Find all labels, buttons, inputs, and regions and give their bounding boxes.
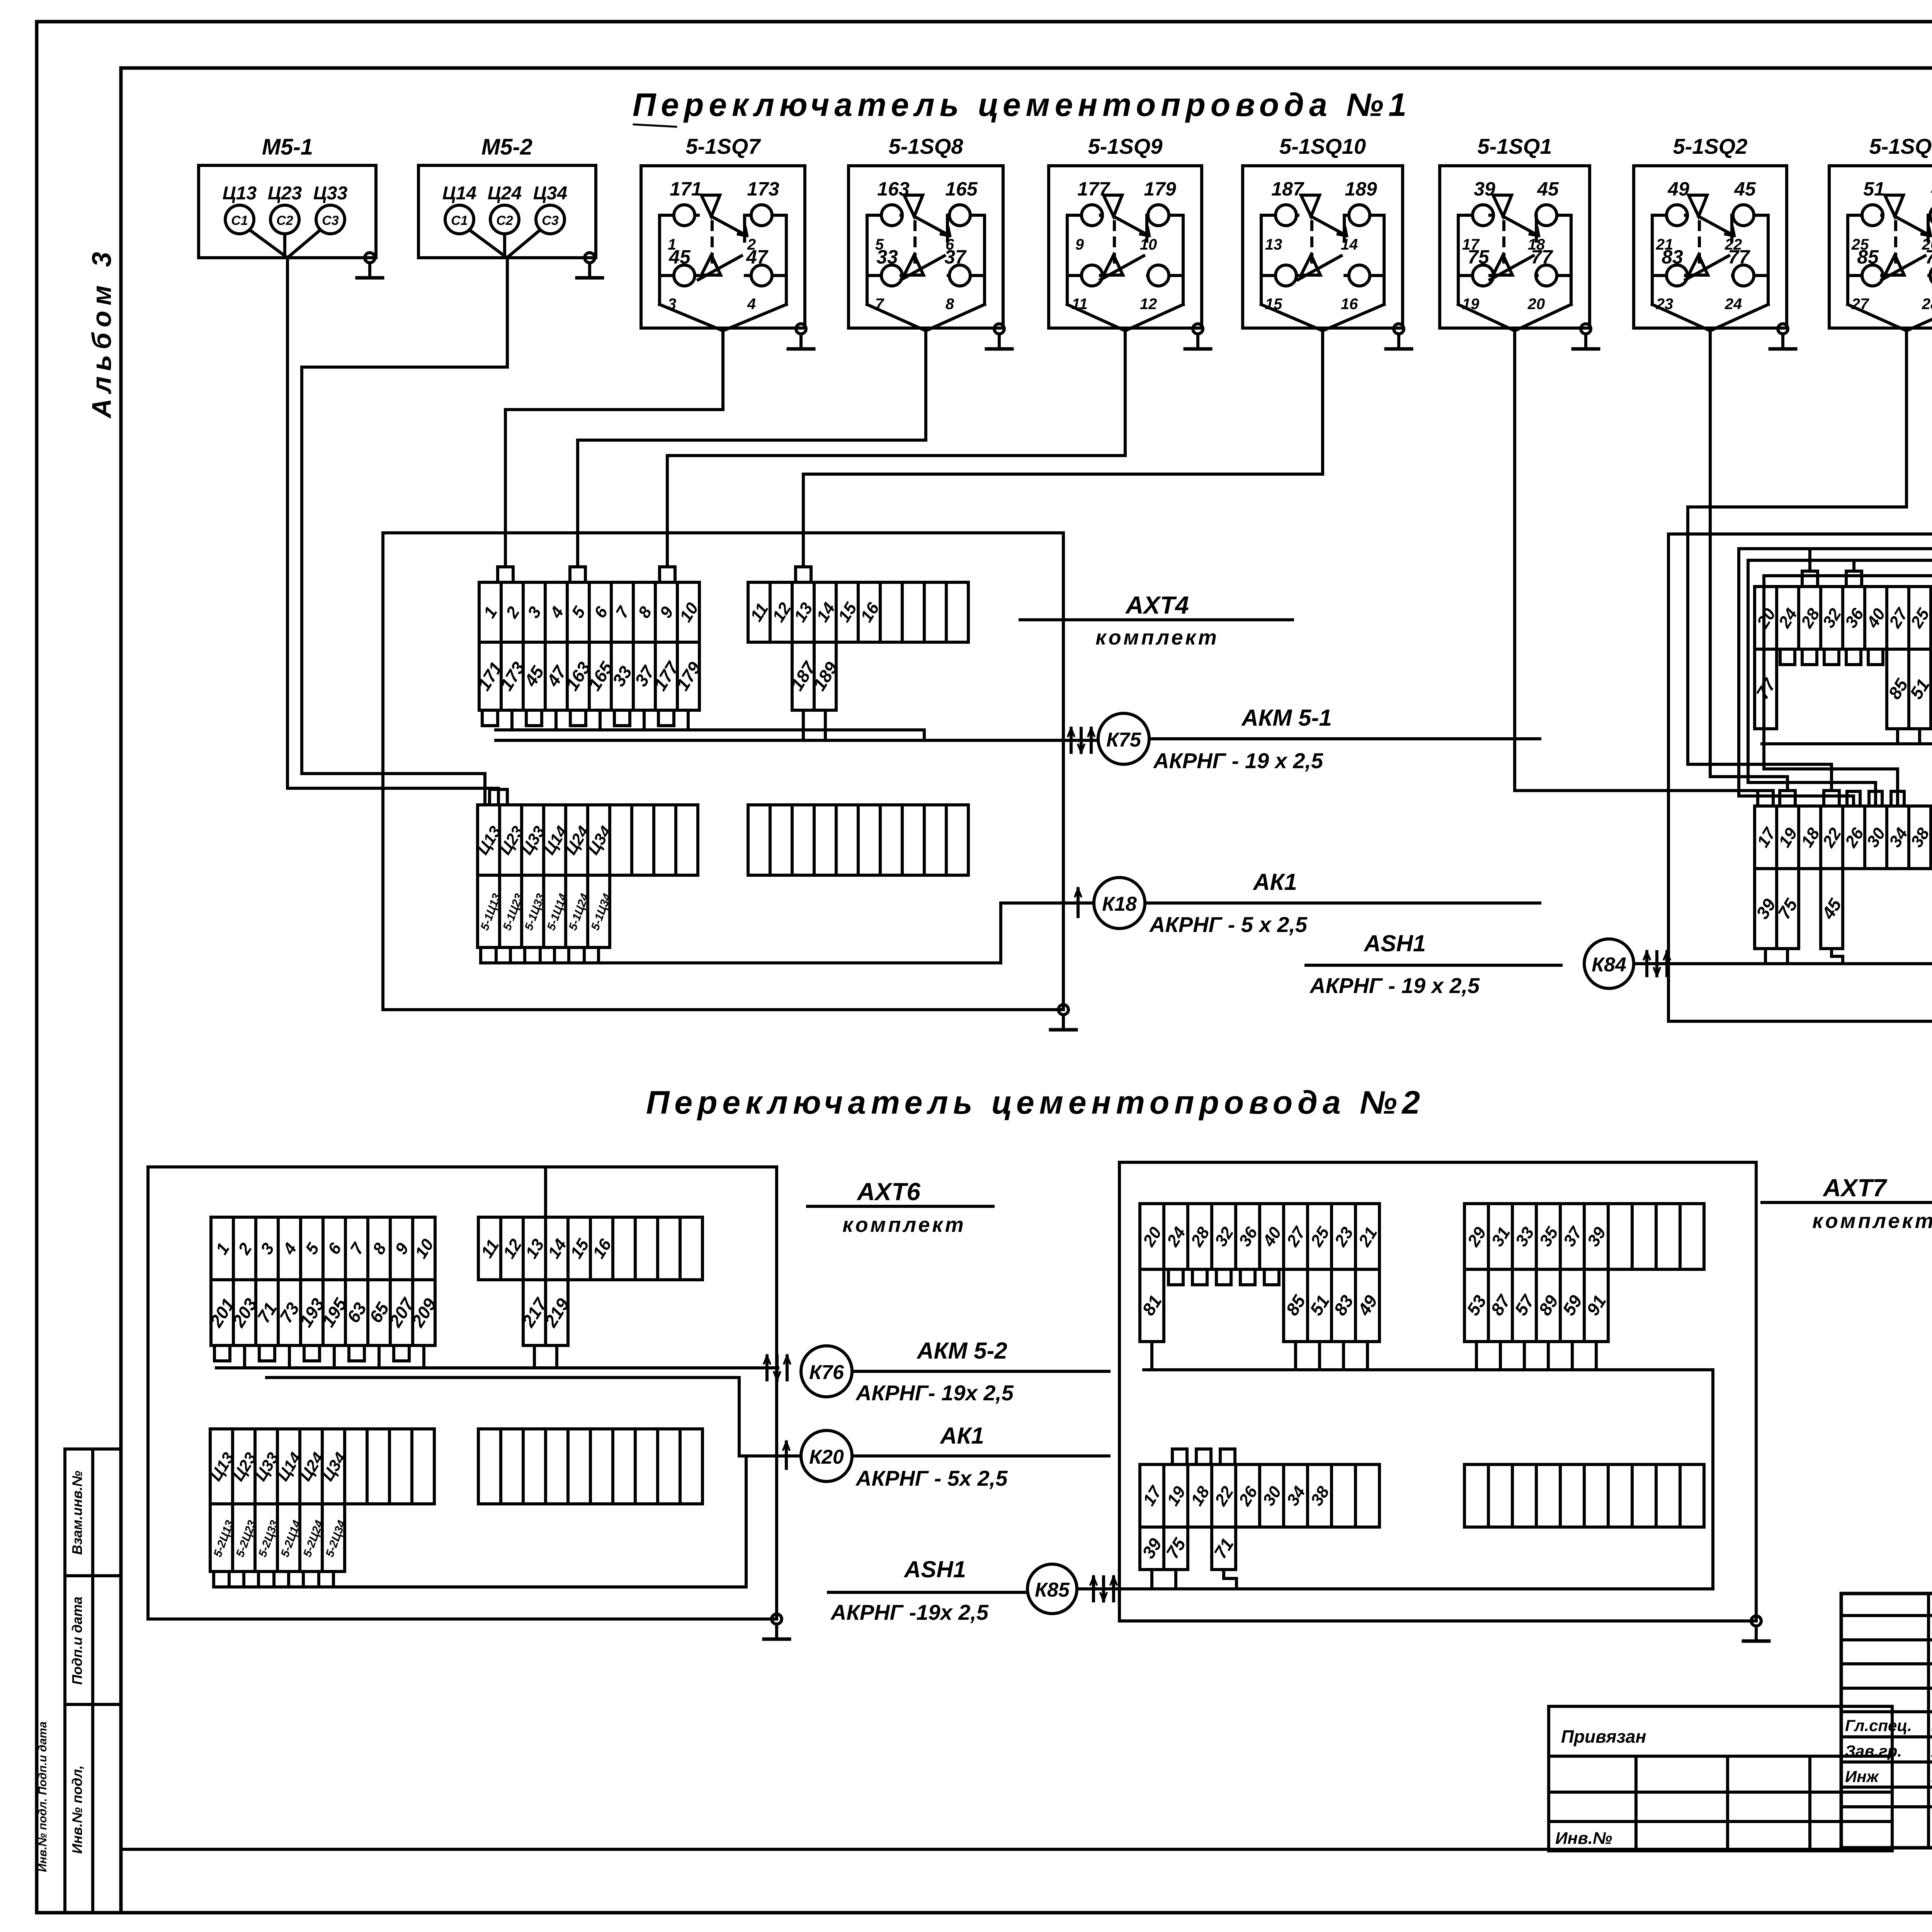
svg-text:1: 1 bbox=[668, 236, 676, 253]
svg-text:17: 17 bbox=[1462, 236, 1480, 253]
cable K75 AKM5-1 bbox=[496, 705, 1540, 773]
svg-text:С3: С3 bbox=[542, 213, 559, 228]
terminal strip XT6 spare lower bbox=[478, 1429, 702, 1504]
terminal strip XT7:C 39,75 bbox=[1138, 1527, 1190, 1570]
margin label Albom 3 bbox=[87, 247, 117, 419]
ground М5-2 bbox=[577, 253, 602, 278]
svg-text:12: 12 bbox=[1140, 296, 1157, 313]
ground 5-1SQ10 bbox=[1386, 324, 1412, 349]
svg-text:С2: С2 bbox=[496, 213, 513, 228]
svg-text:К84: К84 bbox=[1592, 954, 1626, 976]
svg-text:5-1SQ2: 5-1SQ2 bbox=[1673, 134, 1748, 158]
wire 5-1SQ2 to XT5 bbox=[1710, 331, 1787, 791]
terminal strip XT7:C top bbox=[1139, 1464, 1379, 1527]
svg-text:5-1SQ3: 5-1SQ3 bbox=[1869, 134, 1932, 158]
svg-text:5-1SQ9: 5-1SQ9 bbox=[1088, 134, 1163, 158]
svg-text:АХТ6: АХТ6 bbox=[856, 1178, 920, 1206]
terminal strip XT6:C13..C34 bbox=[206, 1429, 434, 1504]
margin stamp boxes bbox=[36, 1449, 121, 1913]
limit switch 5-1SQ1 bbox=[1440, 134, 1590, 331]
limit switch 5-1SQ3 bbox=[1829, 134, 1932, 331]
terminal strip XT7:D spare bbox=[1464, 1464, 1704, 1527]
svg-text:45: 45 bbox=[1734, 178, 1756, 200]
panel outline XT7 bbox=[1119, 1162, 1756, 1621]
svg-text:187: 187 bbox=[1271, 178, 1304, 200]
svg-text:Альбом 3: Альбом 3 bbox=[87, 247, 117, 419]
svg-text:С1: С1 bbox=[231, 213, 248, 228]
ground XT6 bbox=[764, 1614, 789, 1639]
svg-text:13: 13 bbox=[1265, 236, 1282, 253]
terminal strip XT5:A 85..49 bbox=[1884, 649, 1932, 729]
svg-text:24: 24 bbox=[1725, 296, 1742, 313]
svg-text:21: 21 bbox=[1656, 236, 1673, 253]
wire 5-1SQ1 to XT5 bbox=[1515, 331, 1765, 791]
terminal strip XT4:C13..C34 bbox=[473, 805, 698, 875]
svg-text:Ц13: Ц13 bbox=[223, 183, 257, 204]
wire 5-1SQ4 branch to XT5:A bbox=[1808, 549, 1811, 571]
terminal strip XT7:A top bbox=[1139, 1204, 1381, 1269]
title block main stamp bbox=[1841, 1594, 1932, 1851]
title Pereklyuchatel cementoprovoda No2 bbox=[646, 1084, 1425, 1121]
terminal strip XT7:B top bbox=[1464, 1204, 1704, 1269]
svg-text:Инв.№ подл,: Инв.№ подл, bbox=[69, 1765, 85, 1854]
terminal strip XT6 wires 201..209 bbox=[206, 1280, 440, 1345]
terminal strip XT7:C 71 bbox=[1210, 1527, 1237, 1570]
wire 5-1SQ3 to XT5 bbox=[1688, 331, 1906, 791]
panel outline XT5 bbox=[1668, 534, 1932, 1021]
svg-text:45: 45 bbox=[1537, 178, 1559, 200]
ground 5-1SQ1 bbox=[1573, 324, 1599, 349]
label XT4 komplekt bbox=[1020, 591, 1293, 649]
svg-text:4: 4 bbox=[747, 296, 756, 313]
svg-text:АХТ4: АХТ4 bbox=[1125, 591, 1189, 619]
svg-text:К20: К20 bbox=[809, 1446, 844, 1468]
svg-text:АКРНГ - 19 х 2,5: АКРНГ - 19 х 2,5 bbox=[1153, 748, 1323, 773]
terminal strip XT6 wires 5-2Ц13.. bbox=[210, 1504, 349, 1571]
svg-text:С2: С2 bbox=[276, 213, 293, 228]
motor terminal box М5-2 bbox=[418, 134, 596, 258]
wire 5-1SQ9 to XT4 bbox=[667, 331, 1125, 567]
terminal strip XT6 wires 217,219 bbox=[518, 1280, 573, 1345]
svg-text:51: 51 bbox=[1863, 178, 1885, 200]
svg-text:5-1SQ10: 5-1SQ10 bbox=[1279, 134, 1366, 158]
svg-text:173: 173 bbox=[747, 178, 779, 200]
terminal strip XT5:A 77 bbox=[1752, 649, 1780, 729]
wire 5-1SQ4 to XT5 bbox=[1739, 331, 1932, 806]
svg-text:Ц23: Ц23 bbox=[268, 183, 302, 204]
terminal strip XT4:11-16 bbox=[747, 582, 968, 642]
panel outline XT6 bbox=[148, 1167, 777, 1619]
terminal strip XT5:C 45 bbox=[1818, 869, 1845, 949]
svg-text:Переключатель цементопровод: Переключатель цементопровода №1 bbox=[633, 87, 1412, 123]
limit switch 5-1SQ8 bbox=[849, 134, 1003, 331]
svg-text:АКМ 5-1: АКМ 5-1 bbox=[1241, 705, 1332, 731]
svg-text:5: 5 bbox=[875, 236, 884, 253]
terminal strip XT6:11-16 bbox=[477, 1217, 702, 1280]
svg-text:АК1: АК1 bbox=[1252, 869, 1297, 895]
ground 5-1SQ2 bbox=[1770, 324, 1796, 349]
limit switch 5-1SQ2 bbox=[1634, 134, 1787, 331]
cable K18 AK1 bbox=[496, 869, 1540, 963]
svg-text:комплект: комплект bbox=[1812, 1209, 1932, 1233]
XT6 connection tabs bbox=[214, 1169, 557, 1587]
svg-text:АSН1: АSН1 bbox=[903, 1556, 966, 1582]
terminal strip XT4 wires 171..179 bbox=[474, 642, 705, 710]
svg-text:С3: С3 bbox=[322, 213, 339, 228]
svg-text:Взам.инв.№: Взам.инв.№ bbox=[69, 1471, 85, 1555]
title Pereklyuchatel cementoprovoda No1 bbox=[633, 87, 1412, 127]
cable K76 AKM5-2 bbox=[216, 1338, 1109, 1405]
terminal strip XT4:1-10 bbox=[479, 582, 702, 642]
svg-text:8: 8 bbox=[946, 296, 954, 313]
ground 5-1SQ8 bbox=[986, 324, 1012, 349]
cable K20 AK1 bbox=[267, 1378, 1109, 1490]
ground XT4 bbox=[1051, 1005, 1076, 1030]
svg-text:5-1SQ8: 5-1SQ8 bbox=[889, 134, 964, 158]
wire 5-1SQ5 branch to XT5:A bbox=[1852, 560, 1855, 571]
XT5 connection tabs bbox=[1758, 571, 1932, 964]
svg-text:К85: К85 bbox=[1035, 1579, 1070, 1601]
svg-text:2: 2 bbox=[747, 236, 756, 253]
svg-text:179: 179 bbox=[1144, 178, 1176, 200]
svg-text:АSН1: АSН1 bbox=[1363, 930, 1426, 956]
svg-text:АКРНГ - 5х 2,5: АКРНГ - 5х 2,5 bbox=[855, 1466, 1008, 1490]
cable K84 ASH1 bbox=[1306, 744, 1932, 998]
terminal strip XT4 spare lower bbox=[748, 805, 968, 875]
label XT6 komplekt bbox=[808, 1178, 993, 1236]
svg-text:Ц34: Ц34 bbox=[533, 183, 567, 204]
svg-text:Зав.гр.: Зав.гр. bbox=[1845, 1742, 1902, 1760]
svg-text:АКМ 5-2: АКМ 5-2 bbox=[916, 1338, 1007, 1364]
svg-text:Ц14: Ц14 bbox=[442, 183, 476, 204]
svg-text:49: 49 bbox=[1667, 178, 1689, 200]
svg-text:171: 171 bbox=[670, 178, 702, 200]
svg-text:Привязан: Привязан bbox=[1561, 1726, 1646, 1747]
limit switch 5-1SQ10 bbox=[1243, 134, 1403, 331]
terminal strip XT4 wires 5-1Ц13.. bbox=[478, 875, 614, 947]
svg-text:АКРНГ - 19 х 2,5: АКРНГ - 19 х 2,5 bbox=[1309, 973, 1480, 998]
svg-text:189: 189 bbox=[1345, 178, 1377, 200]
wire 5-1SQ7 to XT4 bbox=[505, 331, 723, 567]
svg-text:Инв.№ подл. Подп.и дата: Инв.№ подл. Подп.и дата bbox=[36, 1721, 49, 1872]
cable K85 ASH1 bbox=[828, 1556, 1713, 1624]
svg-text:Ц33: Ц33 bbox=[313, 183, 348, 204]
terminal strip XT5:C top bbox=[1753, 806, 1932, 869]
terminal strip XT5:A top bbox=[1753, 587, 1932, 649]
wire XT7 internal bus bbox=[1144, 1370, 1713, 1589]
limit switch 5-1SQ9 bbox=[1049, 134, 1202, 331]
wire XT6 lower bus bbox=[216, 1456, 746, 1587]
svg-text:К18: К18 bbox=[1102, 893, 1137, 915]
ground XT7 bbox=[1743, 1616, 1769, 1641]
svg-text:25: 25 bbox=[1851, 236, 1869, 253]
wire M5-1 to XT4 bbox=[287, 258, 498, 789]
svg-text:Ц24: Ц24 bbox=[488, 183, 522, 204]
svg-text:комплект: комплект bbox=[1095, 626, 1219, 649]
terminal strip XT7:B 53..91 bbox=[1463, 1269, 1610, 1342]
terminal strip XT7:A 81 bbox=[1138, 1269, 1165, 1342]
svg-text:АХТ7: АХТ7 bbox=[1822, 1174, 1888, 1202]
XT4 connection tabs bbox=[481, 567, 825, 963]
svg-text:М5-2: М5-2 bbox=[481, 134, 532, 160]
svg-text:28: 28 bbox=[1922, 296, 1932, 313]
wire M5-2 to XT4 bbox=[302, 258, 507, 789]
svg-text:20: 20 bbox=[1527, 296, 1545, 313]
svg-text:АК1: АК1 bbox=[939, 1423, 984, 1449]
title block attachment table bbox=[121, 1706, 1892, 1851]
svg-text:5-1SQ7: 5-1SQ7 bbox=[686, 134, 762, 158]
svg-text:АКРНГ - 5 х 2,5: АКРНГ - 5 х 2,5 bbox=[1149, 912, 1308, 937]
label XT7 komplekt bbox=[1762, 1174, 1932, 1233]
svg-text:С1: С1 bbox=[451, 213, 468, 228]
svg-text:Инж: Инж bbox=[1845, 1767, 1879, 1786]
limit switch 5-1SQ7 bbox=[641, 134, 805, 331]
wire 5-1SQ8 to XT4 bbox=[578, 331, 926, 567]
svg-text:Подп.и дата: Подп.и дата bbox=[69, 1597, 85, 1685]
ground 5-1SQ9 bbox=[1185, 324, 1211, 349]
wire 5-1SQ10 to XT4 bbox=[803, 331, 1323, 567]
svg-text:комплект: комплект bbox=[842, 1213, 966, 1236]
svg-text:АКРНГ -19х 2,5: АКРНГ -19х 2,5 bbox=[830, 1600, 989, 1624]
svg-text:16: 16 bbox=[1341, 296, 1358, 313]
svg-text:К75: К75 bbox=[1106, 729, 1141, 751]
wire 5-1SQ6 to XT5 bbox=[1764, 331, 1932, 806]
svg-text:165: 165 bbox=[945, 178, 978, 200]
terminal strip XT4 wires 187,189 bbox=[787, 642, 842, 710]
ground 5-1SQ7 bbox=[788, 324, 814, 349]
svg-text:Гл.спец.: Гл.спец. bbox=[1845, 1716, 1912, 1735]
svg-text:АКРНГ- 19х 2,5: АКРНГ- 19х 2,5 bbox=[855, 1381, 1014, 1405]
terminal strip XT7:A 85..49 bbox=[1282, 1269, 1381, 1342]
XT7 connection tabs bbox=[1152, 1269, 1596, 1589]
ground М5-1 bbox=[357, 253, 383, 278]
svg-text:5-1SQ1: 5-1SQ1 bbox=[1478, 134, 1552, 158]
svg-text:Инв.№: Инв.№ bbox=[1555, 1829, 1612, 1848]
terminal strip XT6:1-10 bbox=[211, 1217, 437, 1280]
wire 5-1SQ5 to XT5 bbox=[1748, 331, 1932, 806]
svg-text:9: 9 bbox=[1075, 236, 1084, 253]
svg-text:К76: К76 bbox=[809, 1361, 844, 1384]
panel outline XT4 bbox=[383, 533, 1063, 1010]
svg-text:М5-1: М5-1 bbox=[262, 134, 313, 160]
terminal strip XT5:C 39,75 bbox=[1752, 869, 1801, 949]
motor terminal box М5-1 bbox=[199, 134, 376, 258]
svg-text:Переключатель цементопровод: Переключатель цементопровода №2 bbox=[646, 1084, 1425, 1121]
